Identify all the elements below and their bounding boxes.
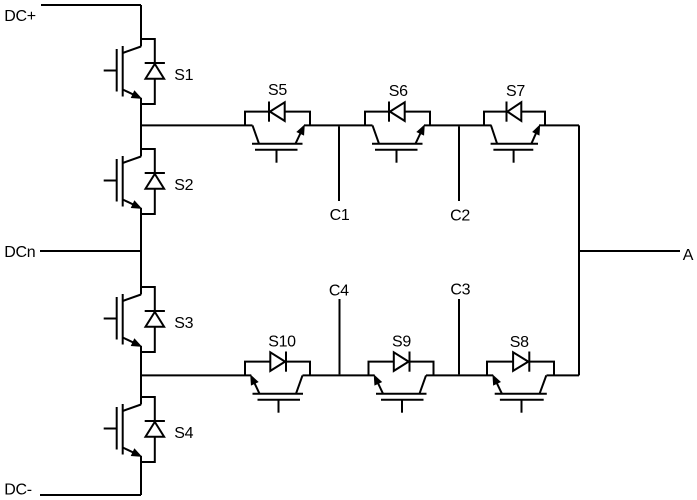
svg-text:DCn: DCn [4,244,35,261]
svg-text:S10: S10 [268,333,296,350]
svg-text:S2: S2 [174,177,193,194]
svg-text:C4: C4 [329,283,349,300]
svg-text:C1: C1 [330,207,350,224]
svg-text:C2: C2 [450,207,470,224]
svg-text:S1: S1 [174,67,193,84]
svg-text:DC+: DC+ [4,8,36,25]
svg-text:S6: S6 [389,83,408,100]
svg-text:S3: S3 [174,315,193,332]
svg-text:A: A [683,247,694,264]
svg-text:DC-: DC- [4,482,32,499]
svg-text:C3: C3 [450,281,470,298]
svg-text:S8: S8 [510,334,529,351]
svg-text:S7: S7 [506,83,525,100]
svg-text:S5: S5 [268,82,287,99]
svg-text:S9: S9 [392,334,411,351]
svg-text:S4: S4 [174,425,193,442]
